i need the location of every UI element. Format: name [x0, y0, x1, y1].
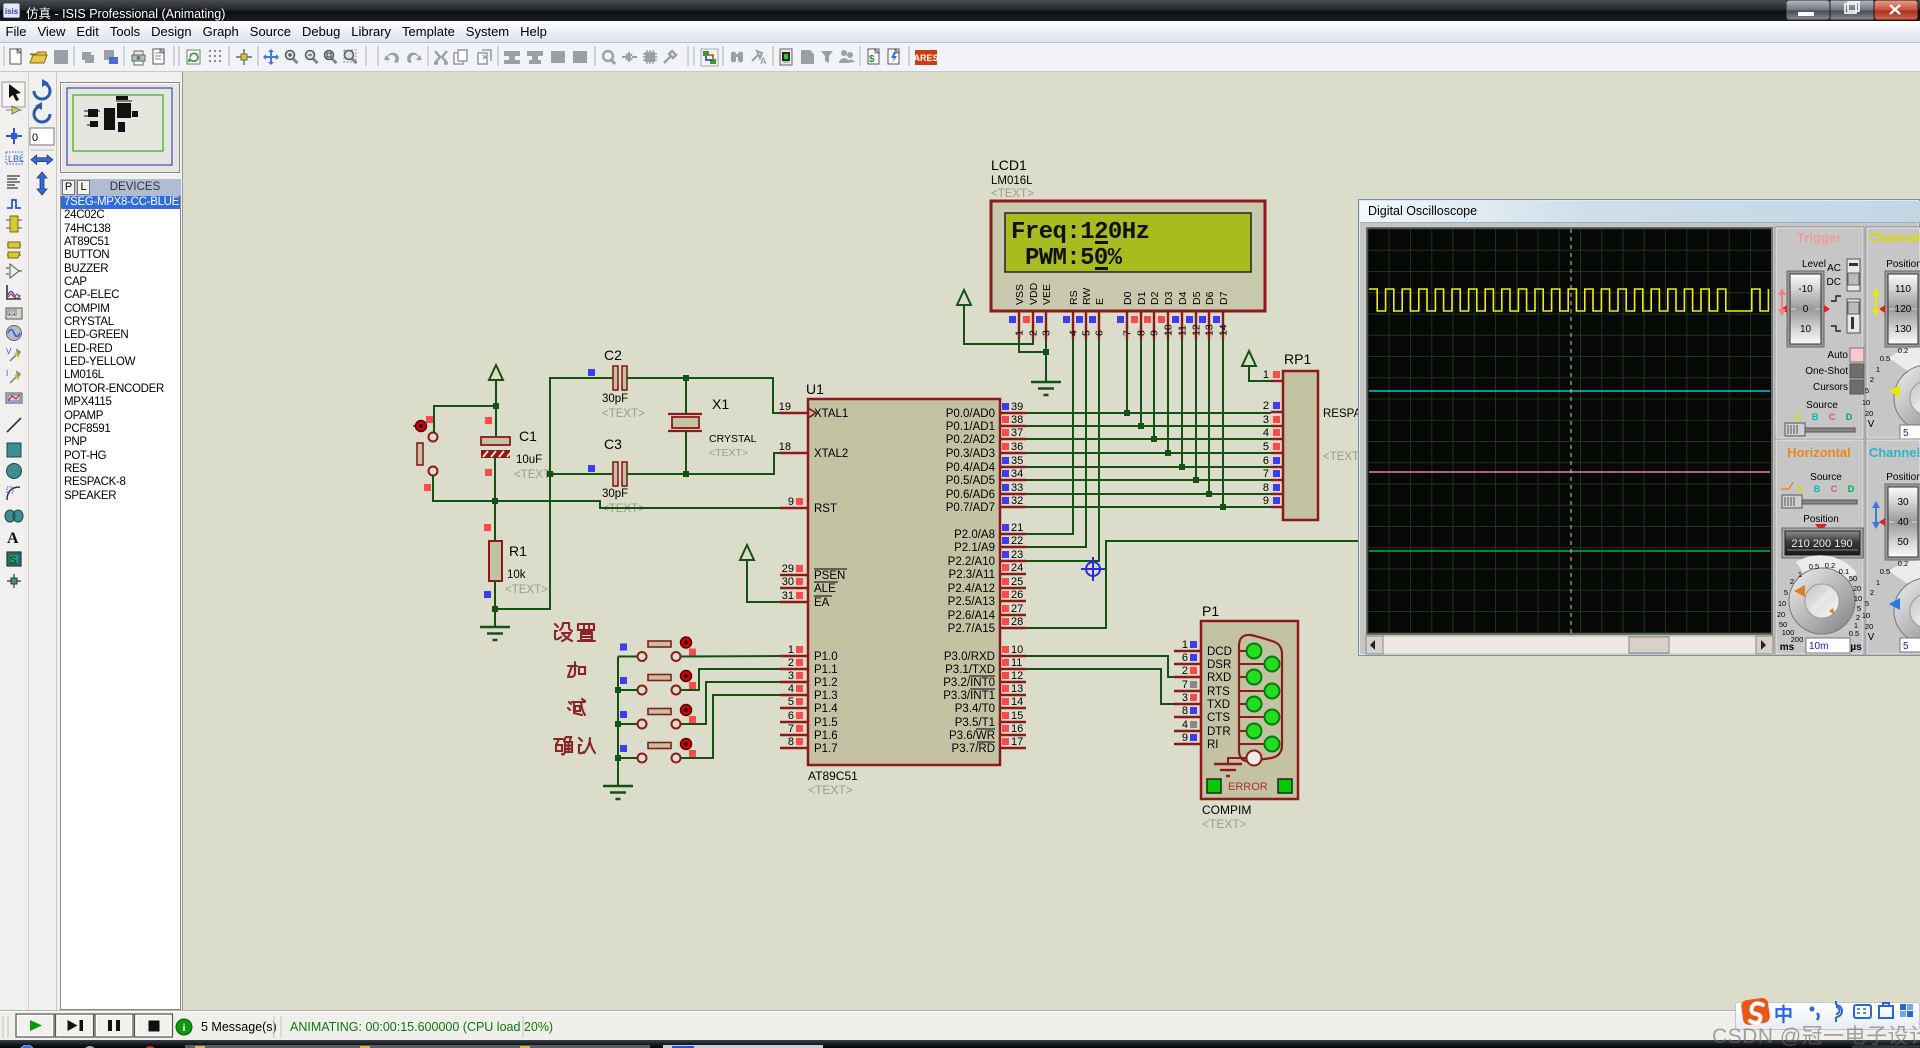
svg-text:5: 5	[1784, 588, 1788, 597]
wire P0.2/D2 net	[1026, 339, 1271, 442]
svg-text:P0.3/AD3: P0.3/AD3	[946, 448, 995, 460]
channel D trace (green)	[1369, 550, 1770, 552]
svg-text:9: 9	[1263, 495, 1269, 507]
svg-text:AT89C51: AT89C51	[808, 769, 858, 783]
svg-text:1: 1	[1798, 570, 1802, 579]
svg-text:2: 2	[788, 657, 794, 669]
svg-text:6: 6	[1263, 455, 1269, 467]
wire RP1 pin1	[1249, 366, 1271, 381]
svg-text:C: C	[1831, 484, 1838, 494]
svg-text:29: 29	[782, 563, 794, 575]
svg-text:9: 9	[788, 496, 794, 508]
ground near LCD	[1031, 382, 1061, 395]
svg-text:B: B	[1814, 484, 1821, 494]
svg-text:3: 3	[1182, 692, 1188, 704]
svg-text:17: 17	[1011, 736, 1023, 748]
svg-text:P2.3/A11: P2.3/A11	[949, 569, 995, 581]
wire button K2 (INC) left to common	[618, 689, 637, 691]
svg-text:ERROR: ERROR	[1228, 781, 1268, 793]
oscilloscope screen	[1366, 227, 1773, 635]
svg-text:D: D	[1848, 484, 1855, 494]
svg-text:P1.6: P1.6	[814, 730, 838, 742]
svg-text:RTS: RTS	[1207, 686, 1230, 698]
resistor R1 10k	[484, 524, 548, 598]
label OK (Chinese)	[554, 737, 595, 755]
svg-text:LCD1: LCD1	[991, 157, 1027, 173]
wire C3 right to XTAL2	[627, 453, 780, 477]
svg-text:30pF: 30pF	[602, 488, 628, 500]
svg-text:P0.7/AD7: P0.7/AD7	[946, 502, 995, 514]
svg-text:6: 6	[1182, 652, 1188, 664]
svg-text:P2.5/A13: P2.5/A13	[948, 596, 995, 608]
channel A section	[1862, 227, 1920, 439]
svg-text:P2.6/A14: P2.6/A14	[948, 610, 996, 622]
svg-text:30: 30	[782, 576, 794, 588]
svg-text:D4: D4	[1177, 291, 1189, 305]
crystal X1	[668, 396, 757, 459]
svg-text:P2.7/A15: P2.7/A15	[948, 623, 995, 635]
svg-text:XTAL1: XTAL1	[814, 408, 848, 420]
svg-text:11: 11	[1177, 325, 1189, 336]
svg-text:ARES: ARES	[913, 53, 938, 63]
svg-text:D5: D5	[1191, 291, 1203, 305]
svg-text:10: 10	[1163, 324, 1175, 336]
svg-text:P3.7/RD: P3.7/RD	[952, 743, 995, 755]
svg-text:210 200 190: 210 200 190	[1791, 538, 1852, 550]
wire R1 bottom to ground	[492, 581, 498, 626]
svg-text:31: 31	[782, 590, 794, 602]
svg-text:P3.3/INT1: P3.3/INT1	[943, 690, 995, 702]
svg-text:23: 23	[1011, 549, 1023, 561]
svg-text:7: 7	[788, 723, 794, 735]
svg-text:P3.5/T1: P3.5/T1	[955, 717, 995, 729]
svg-text:P0.1/AD1: P0.1/AD1	[946, 421, 995, 433]
svg-text:12: 12	[1011, 670, 1023, 682]
svg-text:5: 5	[1903, 428, 1909, 439]
ground inside P1	[1214, 758, 1246, 776]
svg-text:22: 22	[1011, 535, 1023, 547]
svg-text:25: 25	[1011, 576, 1023, 588]
svg-text:C1: C1	[519, 428, 537, 444]
svg-text:2: 2	[1870, 375, 1874, 384]
svg-text:10: 10	[1800, 324, 1812, 335]
svg-text:RS: RS	[1068, 290, 1080, 305]
wire C3 left lead	[547, 471, 612, 477]
svg-text:P2.0/A8: P2.0/A8	[954, 529, 995, 541]
svg-text:1: 1	[1876, 578, 1880, 587]
svg-text:10m: 10m	[1809, 641, 1828, 652]
svg-text:P1.7: P1.7	[814, 743, 838, 755]
svg-text:130: 130	[1895, 324, 1912, 335]
svg-text:0.5: 0.5	[1880, 567, 1890, 576]
svg-text:X1: X1	[712, 396, 729, 412]
svg-text:CRYSTAL: CRYSTAL	[709, 433, 757, 445]
svg-text:S: S	[10, 555, 17, 567]
svg-text:20: 20	[1853, 584, 1861, 593]
wire VDD net	[964, 305, 1033, 344]
wire VCC to C1/button	[434, 380, 499, 433]
svg-text:10uF: 10uF	[516, 454, 542, 466]
wire button K3 (DEC) to P1.2	[681, 682, 780, 724]
svg-text:P1.0: P1.0	[814, 651, 838, 663]
svg-text:6: 6	[1094, 330, 1106, 336]
svg-text:35: 35	[1011, 455, 1023, 467]
svg-text:P2.2/A10: P2.2/A10	[948, 556, 995, 568]
svg-text:0.2: 0.2	[1825, 561, 1835, 570]
IC U1 AT89C51 microcontroller	[806, 381, 1000, 797]
svg-text:5 Message(s): 5 Message(s)	[201, 1020, 277, 1034]
svg-text:AC: AC	[1827, 263, 1841, 274]
svg-text:B: B	[1812, 412, 1819, 422]
svg-text:2: 2	[1870, 588, 1874, 597]
svg-text:D: D	[1846, 412, 1853, 422]
svg-text:2: 2	[1182, 665, 1188, 677]
wire button K2 (INC) to P1.1	[681, 669, 780, 690]
svg-text:0.5: 0.5	[1880, 354, 1890, 363]
svg-text:Source: Source	[1806, 400, 1838, 411]
cursor dashed line	[1570, 229, 1572, 633]
svg-text:9: 9	[1149, 330, 1161, 336]
svg-text:Auto: Auto	[1827, 350, 1848, 361]
push button K3 (DEC)	[620, 705, 696, 729]
svg-text:P3.1/TXD: P3.1/TXD	[945, 664, 995, 676]
svg-text:P3.0/RXD: P3.0/RXD	[944, 651, 995, 663]
svg-text:16: 16	[1011, 723, 1023, 735]
svg-text:10: 10	[1778, 599, 1786, 608]
svg-text:38: 38	[1011, 414, 1023, 426]
svg-text:A: A	[7, 530, 19, 547]
svg-text:C2: C2	[604, 347, 622, 363]
svg-text:RI: RI	[1207, 739, 1219, 751]
power VCC arrow (reset net)	[489, 365, 503, 380]
svg-text:P0.0/AD0: P0.0/AD0	[946, 408, 995, 420]
svg-text:P0.6/AD6: P0.6/AD6	[946, 489, 995, 501]
svg-text:D2: D2	[1149, 291, 1161, 305]
wire RW net (P2.1)	[1026, 339, 1086, 547]
svg-text:5: 5	[1263, 441, 1269, 453]
svg-text:Source: Source	[1810, 472, 1842, 483]
wire button K1 (SET) to P1.0	[681, 655, 780, 658]
P1 pins with numbers	[1174, 639, 1280, 766]
svg-text:0.5: 0.5	[1849, 629, 1859, 638]
svg-text:20: 20	[1865, 622, 1873, 631]
svg-text:A: A	[1795, 412, 1802, 422]
push button K2 (INC)	[620, 671, 696, 695]
svg-text:A: A	[760, 56, 767, 66]
capacitor C1 10uF electrolytic	[481, 417, 557, 481]
svg-text:ANIMATING: 00:00:15.600000 (CP: ANIMATING: 00:00:15.600000 (CPU load 20%…	[290, 1020, 553, 1034]
wire PWM out P2.7 to oscilloscope	[1026, 541, 1362, 628]
svg-text:27: 27	[1011, 603, 1023, 615]
svg-text:1: 1	[1876, 365, 1880, 374]
wire P3.0 RXD to P1	[1026, 656, 1174, 677]
title bar	[0, 0, 1920, 21]
svg-text:COMPIM: COMPIM	[1202, 803, 1251, 817]
left panel	[0, 72, 183, 1011]
svg-text:4: 4	[1068, 330, 1080, 336]
svg-text:10k: 10k	[507, 569, 526, 581]
svg-text:V: V	[1868, 632, 1875, 643]
svg-text:5: 5	[1865, 599, 1869, 608]
svg-text:19: 19	[779, 401, 791, 413]
wire button bottom to RST	[433, 475, 780, 508]
svg-text:7: 7	[1263, 468, 1269, 480]
svg-text:20: 20	[1865, 409, 1873, 418]
svg-text:RST: RST	[814, 503, 837, 515]
svg-text:<TEXT>: <TEXT>	[602, 408, 645, 420]
origin marker (blue crosshair)	[1081, 557, 1105, 581]
wire P0.4/D4 net	[1026, 339, 1271, 470]
svg-text:4: 4	[1263, 427, 1269, 439]
svg-text:<TEXT>: <TEXT>	[808, 783, 853, 797]
svg-text:10: 10	[1854, 594, 1862, 603]
svg-text:18: 18	[779, 441, 791, 453]
wire R1 bottom to C2/C3 column	[495, 378, 612, 609]
svg-text:DCD: DCD	[1207, 646, 1232, 658]
svg-text:0.2: 0.2	[1898, 559, 1908, 568]
status bar	[0, 1011, 1920, 1040]
svg-text:30pF: 30pF	[602, 393, 628, 405]
svg-text:0: 0	[1803, 304, 1809, 315]
svg-text:10: 10	[1862, 611, 1870, 620]
svg-text:P9: P9	[9, 311, 15, 317]
svg-text:P2.4/A12: P2.4/A12	[948, 583, 995, 595]
svg-text:3: 3	[1041, 330, 1053, 336]
svg-text:D3: D3	[1163, 291, 1175, 305]
svg-text:VEE: VEE	[1041, 284, 1053, 305]
svg-text:R1: R1	[509, 543, 527, 559]
wire P0.6/D6 net	[1026, 339, 1271, 497]
svg-text:1: 1	[1182, 639, 1188, 651]
wire VSS/VEE to ground	[1019, 339, 1049, 381]
svg-text:RXD: RXD	[1207, 672, 1231, 684]
svg-text:5: 5	[1857, 604, 1861, 613]
svg-text:Horizontal: Horizontal	[1787, 445, 1851, 460]
wire EA power	[747, 560, 780, 602]
svg-text:TXD: TXD	[1207, 699, 1230, 711]
svg-text:0.1: 0.1	[1839, 567, 1849, 576]
svg-text:µs: µs	[1850, 642, 1862, 653]
svg-text:D1: D1	[1136, 291, 1148, 305]
channel B trace (cyan)	[1369, 390, 1770, 392]
svg-text:21: 21	[1011, 522, 1023, 534]
svg-text:RP1: RP1	[1284, 351, 1311, 367]
svg-text:8: 8	[788, 736, 794, 748]
svg-text:9: 9	[1182, 732, 1188, 744]
svg-text:28: 28	[1011, 616, 1023, 628]
svg-text:11: 11	[1011, 657, 1022, 669]
svg-text:P2.1/A9: P2.1/A9	[954, 542, 995, 554]
push button K1 (SET)	[620, 637, 696, 661]
svg-text:P0.5/AD5: P0.5/AD5	[946, 475, 995, 487]
svg-text:P3.2/INT0: P3.2/INT0	[943, 677, 995, 689]
svg-text:8: 8	[1182, 705, 1188, 717]
svg-text:V: V	[6, 347, 12, 356]
label DEC (Chinese)	[568, 699, 585, 715]
resistor pack RP1 RESPACK-8	[1283, 351, 1387, 520]
svg-text:DTR: DTR	[1207, 726, 1231, 738]
svg-text:7: 7	[1122, 330, 1134, 336]
svg-text:LBL: LBL	[8, 154, 24, 164]
U1 right pins with numbers	[943, 401, 1026, 755]
svg-text:Position: Position	[1886, 472, 1920, 483]
wire buttons common vertical	[615, 657, 621, 786]
svg-text:3: 3	[788, 670, 794, 682]
svg-text:32: 32	[1011, 495, 1023, 507]
scope scrollbar	[1366, 636, 1773, 654]
svg-text:XTAL2: XTAL2	[814, 448, 848, 460]
svg-text:V: V	[1868, 419, 1875, 430]
svg-text:Channel B: Channel B	[1869, 445, 1920, 460]
ground under R1	[480, 627, 510, 640]
svg-text:0: 0	[32, 132, 38, 144]
push button K4 (OK)	[620, 739, 696, 763]
svg-text:36: 36	[1011, 441, 1023, 453]
capacitor C2 30pF	[588, 347, 645, 420]
wire button K4 (OK) to P1.3	[681, 695, 780, 758]
svg-text:3: 3	[1263, 414, 1269, 426]
svg-text:C3: C3	[604, 436, 622, 452]
svg-text:Position: Position	[1886, 259, 1920, 270]
RP1 pins with numbers	[1263, 369, 1283, 507]
svg-text:VSS: VSS	[1014, 284, 1026, 305]
svg-text:7: 7	[1182, 679, 1188, 691]
wire P0.5/D5 net	[1026, 339, 1271, 483]
svg-text:ms: ms	[1780, 642, 1795, 653]
svg-text:U1: U1	[806, 381, 824, 397]
svg-text:DC: DC	[1827, 277, 1841, 288]
svg-text:P0.4/AD4: P0.4/AD4	[946, 462, 996, 474]
svg-text:C: C	[1829, 412, 1836, 422]
svg-text:P1.2: P1.2	[814, 677, 838, 689]
svg-text:14: 14	[1011, 696, 1023, 708]
svg-text:PSEN: PSEN	[814, 570, 845, 582]
svg-text:Channel A: Channel A	[1869, 230, 1920, 245]
svg-text:Trigger: Trigger	[1797, 230, 1841, 245]
svg-text:14: 14	[1218, 324, 1230, 336]
svg-text:P1.5: P1.5	[814, 717, 838, 729]
svg-text:P1.4: P1.4	[814, 703, 838, 715]
svg-text:13: 13	[1204, 324, 1216, 336]
svg-text:One-Shot: One-Shot	[1805, 366, 1848, 377]
svg-text:2: 2	[1790, 577, 1794, 586]
trigger section	[1775, 227, 1864, 439]
horizontal section	[1775, 439, 1864, 655]
svg-text:P0.2/AD2: P0.2/AD2	[946, 434, 995, 446]
svg-text:20: 20	[1777, 610, 1785, 619]
oscilloscope window	[1358, 199, 1920, 656]
svg-text:34: 34	[1011, 468, 1023, 480]
svg-text:2: 2	[1263, 400, 1269, 412]
svg-text:Cursors: Cursors	[1813, 382, 1848, 393]
wire RS net (P2.0)	[1026, 339, 1073, 534]
svg-text:5: 5	[788, 696, 794, 708]
wire P0.0/D0 net	[1026, 339, 1271, 416]
svg-text:33: 33	[1011, 482, 1023, 494]
menu bar	[0, 21, 1920, 43]
channel B section	[1862, 439, 1920, 655]
svg-text:12: 12	[1191, 324, 1203, 336]
U1 left pins with numbers	[779, 401, 849, 755]
svg-text:110: 110	[1895, 284, 1911, 295]
power VDD arrow near LCD	[957, 290, 971, 305]
svg-text:ALE: ALE	[814, 583, 836, 595]
svg-text:EA: EA	[814, 597, 830, 609]
wire P0.1/D1 net	[1026, 339, 1271, 429]
svg-text:i: i	[182, 1022, 185, 1034]
svg-text:RW: RW	[1081, 288, 1093, 305]
wire crystal X1 leads	[685, 378, 687, 474]
svg-text:LM016L: LM016L	[991, 175, 1033, 187]
channel C trace (pink)	[1369, 471, 1770, 473]
svg-text:26: 26	[1011, 589, 1023, 601]
LCD LCD1 LM016L	[991, 157, 1265, 311]
ground under buttons	[603, 786, 633, 799]
svg-text:6: 6	[788, 710, 794, 722]
scope control panel	[1775, 227, 1920, 655]
svg-text:<TEXT>: <TEXT>	[709, 447, 748, 459]
svg-text:4: 4	[1182, 719, 1188, 731]
wire button K3 (DEC) left to common	[618, 723, 637, 725]
svg-text:1: 1	[1263, 369, 1269, 381]
svg-text:2: 2	[1028, 330, 1040, 336]
svg-text:isis: isis	[5, 7, 19, 16]
svg-text:8: 8	[1136, 330, 1148, 336]
svg-text:P3.4/T0: P3.4/T0	[955, 703, 995, 715]
svg-text:30: 30	[1897, 497, 1909, 508]
power arrow RP1 pin1	[1242, 351, 1256, 366]
svg-text:0.2: 0.2	[1898, 346, 1908, 355]
svg-text:1: 1	[1014, 330, 1026, 336]
wire C1 bottom / R1 top	[494, 458, 496, 541]
wire C2 right to XTAL1	[627, 375, 780, 413]
svg-text:Freq:120Hz: Freq:120Hz	[1011, 219, 1150, 246]
svg-text:<TEXT>: <TEXT>	[1202, 817, 1247, 831]
svg-text:P3.6/WR: P3.6/WR	[949, 730, 995, 742]
svg-text:50: 50	[1849, 574, 1857, 583]
svg-text:D6: D6	[1204, 291, 1216, 305]
label SET (Chinese)	[555, 623, 595, 641]
svg-text:<TEXT>: <TEXT>	[991, 188, 1034, 200]
LCD1 pins with numbers	[1009, 282, 1230, 339]
svg-text:I: I	[6, 369, 8, 378]
toolbar	[0, 43, 1920, 72]
svg-text:E: E	[1094, 298, 1106, 305]
svg-text:A: A	[1797, 484, 1804, 494]
svg-text:24: 24	[1011, 562, 1023, 574]
svg-text:10: 10	[1862, 398, 1870, 407]
svg-text:P1.1: P1.1	[814, 664, 838, 676]
power arrow EA pin	[740, 545, 754, 560]
wire P0.3/D3 net	[1026, 339, 1271, 456]
wire button K1 (SET) left to common	[618, 656, 637, 658]
svg-text:P1: P1	[1202, 603, 1219, 619]
svg-text:5: 5	[1081, 330, 1093, 336]
svg-text:0.5: 0.5	[1809, 562, 1819, 571]
svg-text:50: 50	[1897, 537, 1909, 548]
label INC (Chinese)	[568, 662, 585, 677]
svg-text:5: 5	[1865, 386, 1869, 395]
svg-text:D7: D7	[1218, 291, 1230, 305]
svg-text:5: 5	[1903, 641, 1909, 652]
push button RESET	[413, 416, 438, 491]
svg-text:15: 15	[1011, 710, 1023, 722]
svg-text:-10: -10	[1798, 284, 1813, 295]
svg-text:37: 37	[1011, 427, 1023, 439]
svg-text:10: 10	[1011, 644, 1023, 656]
svg-text:DSR: DSR	[1207, 659, 1231, 671]
svg-text:120: 120	[1895, 304, 1912, 315]
